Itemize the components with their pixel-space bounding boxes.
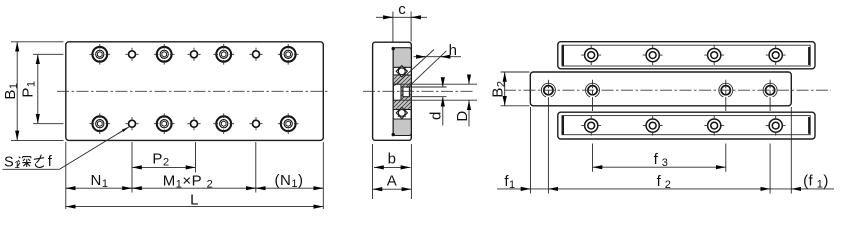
extension lines d and D (402, 84, 477, 100)
label S1 depth f with underline (3, 154, 60, 171)
dimension B1 extension lines (11, 42, 64, 141)
label M1xP2 (163, 173, 213, 191)
center line (left view) (57, 90, 329, 92)
corner dots (392, 47, 395, 136)
dimension B2 extension lines (501, 72, 530, 106)
svg-text:c: c (398, 1, 406, 18)
svg-text:N1: N1 (91, 172, 109, 190)
svg-text:D: D (454, 110, 471, 121)
dimension B1 (2, 42, 20, 141)
extension lines f dims (531, 98, 792, 194)
svg-text:b: b (388, 150, 397, 167)
bottom rail outline (558, 112, 815, 139)
dimension row f1 / f2 / (f1) (497, 188, 834, 190)
top rail outline (558, 42, 815, 69)
counterbore hole row bottom (90, 113, 299, 134)
counterbore hole section (D) (393, 84, 401, 100)
dimension row N1 / M1xP2 / (N1) (66, 187, 324, 189)
rail screw holes bottom (581, 116, 785, 136)
label (N1) (275, 172, 304, 190)
svg-text:A: A (387, 173, 398, 190)
center line (middle view) (363, 90, 474, 92)
svg-text:f: f (48, 154, 53, 170)
center line (right view) (504, 89, 831, 91)
middle slide bar outline (530, 72, 791, 106)
hatching (389, 50, 419, 140)
dimension L (66, 191, 324, 208)
bottom gray rail block (393, 119, 411, 136)
slide threaded holes (541, 80, 777, 101)
extension lines below plate (66, 142, 324, 209)
svg-text:h: h (449, 42, 458, 59)
dimension P1 (20, 54, 38, 123)
dimension c (376, 1, 427, 18)
label N1 (91, 172, 109, 190)
counterbore hole row top (90, 44, 299, 65)
middle gray block (section) (393, 75, 411, 110)
dimension d (428, 78, 445, 126)
svg-text:M1×P 2: M1×P 2 (163, 173, 213, 191)
dimension c extension lines (393, 12, 411, 42)
dimension D (454, 75, 471, 127)
svg-text:L: L (190, 191, 199, 208)
svg-text:P1: P1 (20, 80, 38, 97)
top gray rail block (393, 48, 411, 68)
rail screw holes top (581, 45, 785, 65)
dimension P1 extension lines (33, 54, 64, 123)
dimension h leader diagonals (394, 50, 446, 88)
leader line from S1 label to counterbore hole (60, 127, 129, 169)
plate outline (66, 42, 324, 141)
bottom rail end seals (563, 116, 810, 135)
svg-text:f1: f1 (504, 173, 515, 191)
top rail end seals (563, 45, 810, 65)
outer table outline (373, 42, 412, 140)
svg-text:(f 1): (f 1) (803, 173, 829, 191)
dimension P2 (132, 151, 196, 169)
ball bottom (396, 107, 407, 118)
svg-text:f 3: f 3 (654, 151, 669, 169)
dimension A (373, 173, 412, 190)
label f2 (657, 173, 672, 191)
dimension b (374, 150, 410, 167)
svg-text:d: d (428, 111, 445, 120)
dimension B2 (489, 72, 507, 106)
ball top (396, 66, 407, 77)
dimension h (414, 42, 462, 59)
through hole section (d) (403, 87, 410, 97)
svg-text:(N1): (N1) (275, 172, 304, 190)
label f1 (504, 173, 515, 191)
dimension b extension lines (373, 144, 412, 199)
svg-text:P2: P2 (152, 151, 169, 169)
svg-text:S1: S1 (4, 155, 20, 172)
svg-text:f 2: f 2 (657, 173, 672, 191)
svg-text:B2: B2 (489, 80, 507, 97)
kanji fukasa (depth) simplified strokes (18, 155, 45, 168)
dimension f3 (593, 151, 726, 169)
label (f1) (803, 173, 829, 191)
svg-text:B1: B1 (2, 82, 20, 99)
inner rail divider line (392, 48, 394, 136)
